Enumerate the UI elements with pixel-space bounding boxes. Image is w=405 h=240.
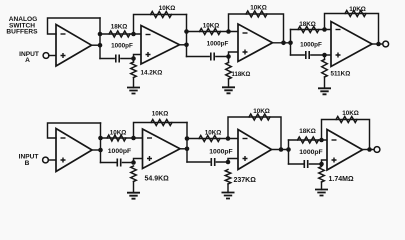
wire to + input A3 [325, 54, 332, 56]
op-amp stage A1 [141, 26, 180, 65]
svg-text:BUFFERS: BUFFERS [6, 29, 38, 36]
wire series rail stage A2 [187, 31, 239, 33]
junction cap node A1 [131, 56, 136, 61]
junction bus B1 / series rail [185, 136, 190, 141]
wire jog to + input B1 [134, 159, 143, 163]
output terminal A [383, 41, 389, 47]
wire resistor B2 to ground [227, 184, 229, 193]
svg-text:10KΩ: 10KΩ [205, 130, 222, 137]
wire op-amp A3 output [372, 43, 383, 45]
wire capacitor rail stage A3 [291, 54, 325, 56]
wire series rail stage B2 [187, 138, 238, 140]
resistor 18K series stage A3 [298, 27, 319, 33]
wire resistor A1 to ground [133, 78, 135, 88]
op-amp buffer B [56, 129, 92, 172]
wire resistor A2 to ground [228, 79, 230, 87]
junction cap node B1 [131, 160, 136, 165]
svg-text:10KΩ: 10KΩ [349, 6, 366, 13]
resistor 10K series stage B2 [199, 136, 220, 142]
resistor 18K series stage B3 [298, 137, 319, 143]
wire input B to buffer + [48, 159, 56, 161]
svg-text:1.74MΩ: 1.74MΩ [329, 176, 354, 183]
svg-text:B: B [25, 160, 30, 167]
op-amp buffer A [56, 25, 92, 67]
wire jog to + input B3 [322, 160, 328, 164]
svg-text:10KΩ: 10KΩ [152, 111, 169, 118]
svg-text:54.9KΩ: 54.9KΩ [145, 176, 170, 183]
resistor 10K feedback stage A1 [151, 12, 172, 18]
junction bus A2 [288, 41, 293, 46]
junction feedback down A2 [281, 41, 286, 46]
junction bus B1 / output [185, 147, 190, 152]
ground stage A3 [318, 88, 331, 94]
resistor 10K feedback stage B3 [336, 117, 357, 123]
wire capacitor rail stage A2 [187, 56, 229, 58]
junction bus A0 / series rail [98, 32, 103, 37]
wire op-amp B3 output [363, 149, 375, 151]
junction output node A [376, 42, 381, 47]
wire resistor B3 to ground [321, 182, 323, 190]
junction cap node B2 [226, 160, 231, 165]
wire series rail stage A3 [291, 29, 332, 31]
junction node D-A3 [322, 27, 327, 32]
node INPUT B label [19, 154, 39, 167]
resistor 10K series stage B1 [107, 135, 126, 141]
junction cap node A2 [226, 54, 231, 59]
capacitor 1000pF stage B2 [211, 158, 214, 166]
resistor 10K feedback stage A3 [345, 11, 366, 17]
resistor 18K series stage A1 [109, 31, 130, 37]
wire bus node A1 vertical [186, 15, 188, 57]
junction bus A1 / output [184, 43, 189, 48]
wire bus node A0 vertical [99, 18, 101, 59]
op-amp stage B3 [327, 130, 363, 171]
wire bus node B1 vertical [186, 123, 188, 163]
capacitor 1000pF stage A3 [306, 51, 309, 59]
wire capacitor rail stage B3 [289, 163, 322, 165]
svg-text:118KΩ: 118KΩ [232, 72, 251, 78]
svg-text:18KΩ: 18KΩ [299, 21, 316, 28]
wire series rail stage A1 [100, 33, 141, 35]
op-amp stage A2 [238, 24, 273, 62]
wire capacitor rail stage B2 [187, 161, 228, 163]
svg-text:10KΩ: 10KΩ [253, 108, 270, 115]
svg-text:A: A [25, 57, 30, 64]
junction node D-B3 [319, 138, 324, 143]
svg-text:1000pF: 1000pF [207, 41, 229, 48]
ground stage B2 [222, 193, 235, 199]
wire op-amp A1 output to bus [180, 44, 187, 46]
svg-text:1000pF: 1000pF [108, 148, 131, 155]
wire bus node A2 vertical [290, 30, 292, 56]
junction feedback down B2 [279, 147, 284, 152]
resistor 10K series stage A2 [200, 29, 221, 35]
wire feedback rail stage A2 [229, 14, 284, 43]
wire jog to + input B2 [228, 159, 238, 163]
wire bus node B2 vertical [288, 140, 290, 164]
svg-text:10KΩ: 10KΩ [159, 5, 176, 12]
svg-text:10KΩ: 10KΩ [250, 5, 267, 12]
junction bus B2 [286, 147, 291, 152]
wire feedback rail stage B3 [322, 120, 370, 150]
junction node D-A1 [131, 32, 136, 37]
svg-text:10KΩ: 10KΩ [342, 110, 359, 117]
wire resistor A3 to ground [324, 77, 326, 88]
capacitor 1000pF stage B3 [304, 160, 307, 168]
capacitor 1000pF stage A1 [116, 55, 119, 63]
wire jog to + input A2 [229, 52, 239, 57]
wire input A to buffer + [49, 55, 56, 57]
junction node D-B2 [226, 136, 231, 141]
wire buffer A feedback loop [48, 18, 101, 34]
svg-text:237KΩ: 237KΩ [234, 177, 257, 184]
wire capacitor rail stage B1 [101, 162, 134, 164]
wire feedback rail stage B1 [134, 123, 188, 139]
svg-text:511KΩ: 511KΩ [331, 71, 351, 78]
junction bus A1 / series rail [184, 29, 189, 34]
svg-text:18KΩ: 18KΩ [299, 128, 316, 135]
ground stage B3 [315, 190, 328, 196]
resistor 1.74M to ground stage B3 [319, 167, 325, 183]
junction bus A0 / buffer output [98, 43, 103, 48]
ground stage A2 [222, 87, 235, 93]
wire feedback rail stage A1 [134, 15, 187, 35]
ground stage A1 [127, 88, 140, 94]
svg-text:1000pF: 1000pF [111, 43, 133, 50]
wire jog to + input A1 [134, 55, 142, 59]
junction bus B0 / buffer output [98, 148, 103, 153]
junction node D-A2 [226, 29, 231, 34]
svg-text:1000pF: 1000pF [299, 149, 322, 156]
ground stage B1 [127, 193, 140, 199]
wire feedback rail stage A3 [325, 14, 379, 45]
junction cap node B3 [319, 162, 324, 167]
wire buffer B feedback loop [48, 123, 101, 138]
wire op-amp A2 output [273, 42, 291, 44]
op-amp stage B2 [238, 130, 272, 170]
resistor 118K to ground stage A2 [228, 57, 230, 63]
input terminal B [43, 157, 49, 163]
wire resistor B1 to ground [133, 182, 135, 193]
wire op-amp B2 output [272, 149, 289, 151]
op-amp stage A3 [331, 22, 372, 67]
svg-text:1000pF: 1000pF [209, 148, 232, 155]
wire buffer A output to bus [92, 44, 101, 46]
resistor 54.9K to ground stage B1 [131, 166, 137, 182]
resistor 10K feedback stage B1 [151, 120, 172, 126]
svg-text:18KΩ: 18KΩ [111, 23, 128, 30]
wire series rail stage B3 [289, 139, 328, 141]
svg-text:14.2KΩ: 14.2KΩ [141, 70, 163, 77]
node INPUT A label [19, 51, 39, 64]
svg-text:1000pF: 1000pF [300, 42, 322, 49]
svg-text:10KΩ: 10KΩ [203, 23, 220, 30]
wire op-amp B1 output to bus [180, 148, 187, 150]
wire series rail stage B1 [101, 137, 143, 139]
resistor 237K to ground stage B2 [225, 170, 231, 185]
resistor 10K feedback stage B2 [249, 114, 270, 120]
wire buffer B output to bus [92, 149, 101, 151]
junction bus B0 / series rail [98, 136, 103, 141]
resistor 511K to ground stage A3 [324, 55, 326, 60]
junction cap node A3 [322, 53, 327, 58]
label ANALOG SWITCH BUFFERS [6, 16, 38, 35]
junction output node B [367, 147, 372, 152]
wire bus node B0 vertical [100, 123, 102, 163]
input terminal A [43, 53, 49, 59]
capacitor 1000pF stage B1 [117, 159, 120, 167]
capacitor 1000pF stage A2 [211, 53, 214, 61]
junction node D-B1 [131, 136, 136, 141]
svg-text:10KΩ: 10KΩ [110, 129, 127, 136]
wire feedback rail stage B2 [228, 117, 281, 150]
output terminal B [374, 147, 380, 153]
resistor 10K feedback stage A2 [246, 11, 267, 17]
wire capacitor rail stage A1 [100, 58, 134, 60]
op-amp stage B1 [143, 129, 181, 169]
resistor 14.2K to ground stage A1 [133, 59, 135, 63]
